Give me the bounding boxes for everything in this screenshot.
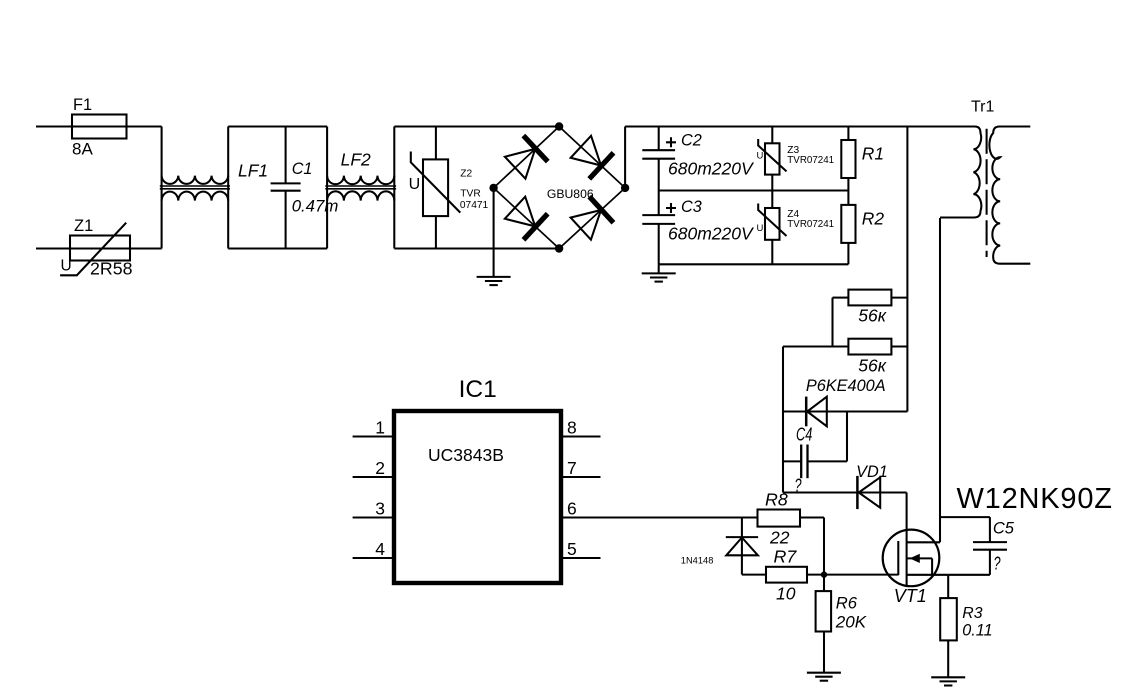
- wire top rail LF1-LF2: [228, 125, 327, 127]
- svg-text:U: U: [757, 151, 764, 162]
- wire drain riser: [939, 218, 941, 542]
- varistor Z2: [409, 127, 489, 249]
- svg-text:1: 1: [375, 418, 385, 438]
- svg-text:3: 3: [375, 499, 385, 519]
- svg-text:07471: 07471: [460, 200, 489, 211]
- svg-text:UC3843B: UC3843B: [428, 445, 504, 465]
- svg-text:8: 8: [567, 418, 577, 438]
- bridge diode D-bottomleft: [503, 195, 548, 240]
- transformer Tr1 primary winding: [940, 127, 981, 218]
- svg-text:20K: 20K: [835, 612, 867, 631]
- svg-text:GBU806: GBU806: [547, 187, 594, 201]
- svg-text:IC1: IC1: [459, 376, 497, 403]
- resistor R1: [841, 127, 884, 191]
- wire mid rail: [659, 189, 849, 191]
- capacitor C5: [940, 517, 1015, 575]
- choke LF1: [160, 127, 268, 249]
- svg-text:680m220V: 680m220V: [668, 224, 755, 244]
- svg-text:R6: R6: [836, 594, 858, 613]
- wire pin6 to R8: [561, 516, 758, 518]
- ground (R3): [931, 677, 965, 685]
- svg-text:Z2: Z2: [460, 169, 472, 180]
- pin 5: [561, 539, 601, 559]
- svg-text:LF2: LF2: [341, 150, 371, 170]
- svg-text:8A: 8A: [72, 140, 93, 159]
- diode P6KE400A: [783, 377, 907, 426]
- transformer Tr1 core: [986, 129, 988, 257]
- node DC plus right: [621, 184, 629, 192]
- svg-text:R2: R2: [862, 209, 885, 229]
- svg-text:R8: R8: [765, 490, 788, 510]
- svg-text:TVR07241: TVR07241: [787, 155, 834, 166]
- svg-text:R1: R1: [862, 144, 884, 164]
- varistor Z4: [757, 191, 835, 265]
- wire AC line bottom: [36, 247, 162, 249]
- svg-text:C3: C3: [681, 198, 702, 216]
- pin 3: [353, 499, 394, 519]
- wire gate: [824, 574, 898, 576]
- wire VD1 to drain clamp: [906, 493, 908, 530]
- svg-text:56к: 56к: [858, 306, 886, 326]
- svg-text:C1: C1: [292, 160, 313, 178]
- svg-text:VD1: VD1: [856, 463, 888, 481]
- pin 2: [353, 458, 394, 478]
- resistor 56k lower: [783, 339, 907, 376]
- wire AC line top: [36, 125, 162, 127]
- resistor 56k upper: [833, 290, 908, 326]
- bridge diode D-bottomright: [569, 197, 614, 242]
- capacitor C3: [642, 191, 755, 265]
- capacitor C4: [783, 412, 847, 496]
- svg-text:1N4148: 1N4148: [681, 556, 714, 566]
- svg-text:Tr1: Tr1: [971, 99, 995, 116]
- svg-text:6: 6: [567, 499, 577, 519]
- node AC top: [555, 122, 563, 130]
- svg-text:4: 4: [375, 539, 385, 559]
- pin 4: [353, 539, 394, 559]
- transformer Tr1 secondary winding: [989, 127, 1030, 264]
- capacitor C2: [642, 127, 755, 191]
- svg-text:C2: C2: [681, 132, 702, 150]
- svg-text:?: ?: [994, 553, 1002, 574]
- ground (C3): [642, 264, 676, 281]
- bridge diode D-topleft: [503, 136, 548, 181]
- bridge rectifier GBU806: [494, 127, 625, 249]
- svg-text:10: 10: [776, 583, 796, 603]
- wire R3 to ground: [947, 640, 949, 677]
- svg-text:R3: R3: [962, 605, 982, 622]
- svg-text:W12NK90Z: W12NK90Z: [957, 483, 1113, 515]
- node DC minus left: [489, 184, 497, 192]
- varistor Z1: [60, 217, 133, 279]
- svg-text:U: U: [757, 223, 764, 234]
- wire clamp left drop: [782, 347, 784, 493]
- node gate junction: [821, 571, 827, 577]
- transistor VT1: [883, 530, 949, 606]
- bridge diode D-topright: [569, 134, 614, 179]
- svg-text:680m220V: 680m220V: [668, 158, 755, 178]
- node AC bottom: [555, 244, 563, 252]
- wire bottom rail LF1-LF2: [228, 247, 327, 249]
- svg-text:R7: R7: [774, 547, 798, 567]
- svg-text:2R58: 2R58: [90, 259, 133, 279]
- svg-text:LF1: LF1: [238, 161, 268, 181]
- resistor R8: [758, 490, 825, 548]
- svg-text:VT1: VT1: [894, 586, 927, 606]
- svg-text:Z1: Z1: [74, 217, 93, 235]
- wire 56k join: [831, 298, 833, 347]
- ground (R6): [807, 673, 841, 681]
- resistor R2: [841, 191, 884, 265]
- wire R8 to gate node: [823, 518, 825, 575]
- svg-text:P6KE400A: P6KE400A: [806, 377, 886, 395]
- svg-text:5: 5: [567, 539, 577, 559]
- svg-text:22: 22: [769, 528, 790, 548]
- svg-text:C5: C5: [993, 520, 1015, 538]
- svg-text:C4: C4: [796, 424, 812, 445]
- pin 8: [561, 418, 601, 438]
- diode VD1: [783, 463, 907, 509]
- svg-text:U: U: [409, 176, 421, 193]
- svg-text:TVR07241: TVR07241: [787, 219, 834, 230]
- resistor R7: [742, 547, 824, 604]
- svg-text:F1: F1: [73, 96, 92, 114]
- fuse F1: [72, 96, 127, 159]
- capacitor C1: [271, 127, 339, 249]
- diode 1N4148: [681, 518, 758, 575]
- resistor R6: [816, 575, 867, 673]
- wire snubber drop: [906, 127, 908, 412]
- resistor R3: [940, 598, 992, 640]
- wire bottom rail LF2-bridge: [394, 247, 559, 249]
- wire top rail DC: [625, 125, 975, 127]
- wire DC plus riser: [624, 127, 626, 188]
- ground (bridge): [477, 188, 511, 285]
- wire source to R3: [947, 575, 949, 598]
- IC1 UC3843B body: [394, 376, 561, 583]
- pin 1: [353, 418, 394, 438]
- wire top rail LF2-bridge: [394, 125, 559, 127]
- svg-text:56к: 56к: [858, 356, 886, 376]
- pin 7: [561, 458, 601, 478]
- choke LF2: [325, 127, 396, 249]
- svg-text:2: 2: [375, 458, 385, 478]
- svg-text:7: 7: [567, 458, 577, 478]
- svg-text:U: U: [61, 258, 72, 275]
- svg-text:TVR: TVR: [460, 189, 480, 200]
- wire bottom rail DC: [659, 263, 849, 265]
- varistor Z3: [757, 127, 835, 191]
- svg-text:0.47m: 0.47m: [292, 197, 339, 216]
- svg-text:0.11: 0.11: [962, 622, 992, 640]
